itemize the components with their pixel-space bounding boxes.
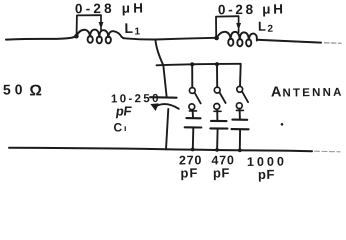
node rail dot branch2 <box>215 148 219 152</box>
L2 coil lower loops <box>228 39 233 46</box>
wire branch1 stub <box>191 64 193 87</box>
svg-text:pF: pF <box>115 104 133 119</box>
switch S3 <box>236 86 248 108</box>
switch S2 <box>214 87 226 109</box>
node L1 left junction dot <box>74 34 79 39</box>
svg-text:NTENNA: NTENNA <box>282 87 341 100</box>
wire bottom rail faint tail <box>315 150 341 153</box>
wire main vertical (to C1) <box>155 40 166 97</box>
node bus dot branch2 <box>215 62 219 66</box>
variable capacitor C1 <box>150 97 179 149</box>
wire top-middle segment <box>124 38 156 39</box>
node L2 left junction dot <box>214 36 219 41</box>
L2 variable-tuning bracket <box>216 16 239 36</box>
wire branch3 stub (bus corner) <box>239 64 242 87</box>
svg-text:2: 2 <box>267 24 273 35</box>
svg-text:L: L <box>258 19 266 34</box>
L2 adjust arrow <box>238 17 240 32</box>
capacitor 1000pF <box>232 109 249 151</box>
svg-text:0-28 μH: 0-28 μH <box>218 2 283 18</box>
inductor L2 <box>214 16 257 46</box>
wire top segment to L2 <box>155 38 215 40</box>
inductor L1 <box>74 15 123 43</box>
L2 coil humps <box>217 32 257 41</box>
node rail dot branch1 <box>191 148 195 152</box>
svg-text:pF: pF <box>213 165 230 180</box>
svg-text:L: L <box>124 20 133 36</box>
node bus dot branch1 <box>190 62 194 66</box>
stray ink dot <box>281 123 284 126</box>
L1 coil lower loops <box>88 36 93 43</box>
svg-text:A: A <box>271 84 282 100</box>
svg-text:pF: pF <box>180 165 197 180</box>
capacitor 270pF <box>185 110 202 150</box>
svg-text:C: C <box>113 120 122 134</box>
wire top-right faint tail <box>325 42 342 44</box>
svg-text:ı: ı <box>124 123 127 133</box>
wire top-left segment <box>6 36 76 39</box>
svg-text:0-28 μH: 0-28 μH <box>75 0 143 16</box>
L1 adjust arrow <box>100 16 102 31</box>
node rail dot branch3 <box>238 148 242 152</box>
svg-text:pF: pF <box>258 167 275 182</box>
switch S1 <box>189 88 201 110</box>
capacitor 470pF <box>210 109 227 149</box>
svg-text:50: 50 <box>3 81 23 97</box>
L1 coil humps <box>76 30 123 39</box>
wire bottom rail <box>9 148 312 152</box>
wire capacitor-bank bus <box>157 64 241 66</box>
L1 variable-tuning bracket <box>77 15 101 34</box>
wire top-right segment <box>257 40 321 43</box>
svg-text:Ω: Ω <box>29 82 42 99</box>
svg-text:1: 1 <box>134 26 140 37</box>
wire branch2 stub <box>216 64 218 87</box>
